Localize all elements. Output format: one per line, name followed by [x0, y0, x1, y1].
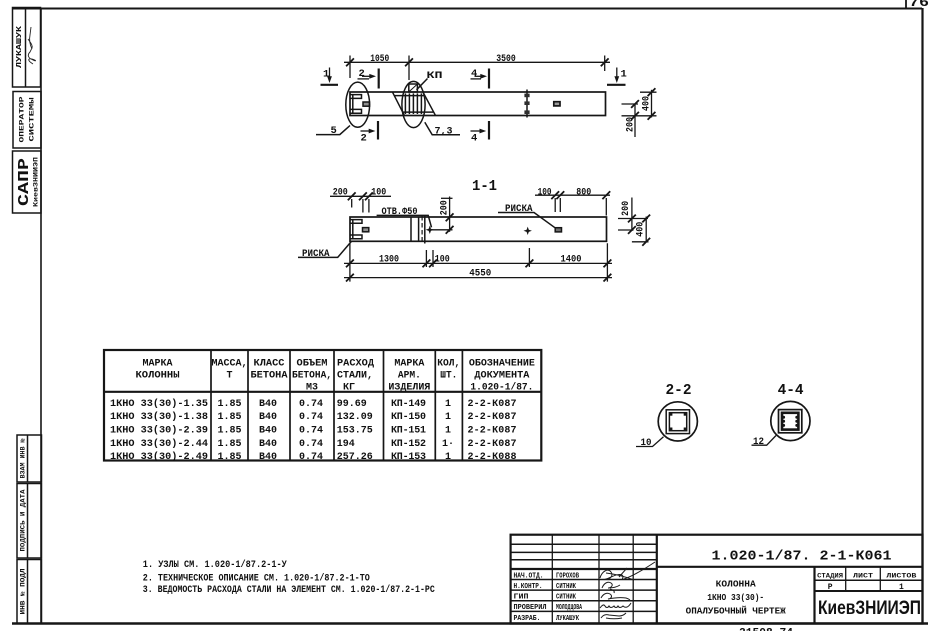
svg-text:ПРОВЕРИЛ: ПРОВЕРИЛ	[514, 604, 547, 612]
svg-text:1КНО 33(30)-1.38: 1КНО 33(30)-1.38	[110, 411, 208, 423]
svg-text:2-2-К087: 2-2-К087	[468, 399, 517, 410]
svg-text:1КНО 33(30)-: 1КНО 33(30)-	[707, 593, 764, 603]
table header divider	[104, 391, 541, 393]
svg-text:ОПЕРАТОР: ОПЕРАТОР	[18, 97, 26, 143]
svg-text:4: 4	[471, 133, 477, 145]
svg-text:1КНО 33(30)-2.44: 1КНО 33(30)-2.44	[110, 438, 208, 450]
svg-text:ОТВ.Ф50: ОТВ.Ф50	[382, 206, 418, 218]
leader 10	[636, 437, 664, 447]
svg-text:400: 400	[640, 96, 652, 111]
table column lines	[104, 350, 541, 461]
svg-text:0.74: 0.74	[299, 412, 323, 423]
right side ext lines	[640, 91, 657, 93]
svg-text:РАСХОД: РАСХОД	[337, 359, 374, 370]
svg-text:400: 400	[634, 222, 646, 237]
svg-text:М3: М3	[306, 382, 318, 393]
svg-text:РИСКА: РИСКА	[505, 203, 533, 215]
leader for detail 5	[316, 126, 350, 135]
svg-text:1.85: 1.85	[218, 412, 242, 423]
corbel body	[393, 92, 436, 115]
svg-text:1КНО 33(30)-2.39: 1КНО 33(30)-2.39	[110, 425, 208, 437]
signature table verticals	[551, 535, 553, 624]
svg-text:КП: КП	[427, 70, 443, 82]
section mark 1 left	[321, 68, 339, 85]
signature labels	[514, 573, 583, 624]
svg-text:2-2-К087: 2-2-К087	[468, 426, 517, 437]
svg-text:1: 1	[445, 399, 451, 410]
svg-text:1. УЗЛЫ СМ. 1.020-1/87.2-1-У: 1. УЗЛЫ СМ. 1.020-1/87.2-1-У	[143, 559, 287, 571]
svg-text:В40: В40	[259, 412, 277, 423]
section mark 4 bottom	[471, 121, 490, 140]
stadiya headers	[817, 573, 916, 581]
svg-text:БЕТОНА: БЕТОНА	[251, 371, 288, 382]
svg-text:1.020-1/87. 2-1-К061: 1.020-1/87. 2-1-К061	[712, 549, 892, 565]
svg-text:200: 200	[333, 187, 348, 199]
signature Горохов	[600, 562, 655, 580]
svg-text:МАРКА: МАРКА	[143, 359, 173, 370]
svg-text:КП-150: КП-150	[391, 412, 426, 423]
column section outline	[350, 217, 607, 241]
svg-text:5: 5	[331, 125, 337, 137]
table data rows	[110, 398, 517, 463]
table header texts	[136, 359, 535, 394]
svg-text:1·: 1·	[442, 439, 454, 450]
detail ellipse 7,3	[402, 81, 425, 127]
signature Лукашук	[601, 613, 626, 619]
svg-text:САПР: САПР	[16, 158, 33, 206]
svg-text:3. ВЕДОМОСТЬ РАСХОДА СТАЛИ НА: 3. ВЕДОМОСТЬ РАСХОДА СТАЛИ НА ЭЛЕМЕНТ СМ…	[143, 584, 435, 596]
detail ellipse 5	[346, 82, 370, 127]
svg-text:БЕТОНА,: БЕТОНА,	[292, 371, 332, 382]
hole diamond 2	[524, 227, 532, 235]
svg-text:1КНО 33(30)-2.49: 1КНО 33(30)-2.49	[110, 451, 208, 463]
section 2-2 outer square	[666, 410, 689, 434]
svg-text:СТАЛИ,: СТАЛИ,	[337, 371, 373, 382]
svg-text:200: 200	[438, 200, 450, 215]
svg-text:Т: Т	[226, 371, 232, 382]
lifting loop mark	[554, 102, 560, 106]
title block outer border	[511, 535, 923, 624]
section 4-4 inner thick tube	[782, 413, 798, 430]
svg-text:0.74: 0.74	[299, 452, 323, 463]
left end formwork profile	[351, 95, 362, 114]
svg-text:1: 1	[899, 583, 904, 592]
svg-text:2: 2	[359, 68, 365, 80]
svg-text:В40: В40	[259, 439, 277, 450]
stamp box САПР КиевЗНИИЭП	[13, 151, 42, 213]
top-right sheet number box	[905, 0, 907, 9]
svg-text:ОПАЛУБОЧНЫЙ ЧЕРТЕЖ: ОПАЛУБОЧНЫЙ ЧЕРТЕЖ	[686, 606, 787, 617]
svg-text:МОЛОДЦОВА: МОЛОДЦОВА	[556, 604, 583, 612]
label row lines	[511, 579, 657, 581]
overall dim line 4550	[344, 277, 612, 279]
svg-text:КЛАСС: КЛАСС	[254, 359, 285, 370]
svg-text:100: 100	[538, 186, 552, 198]
left end formwork profile (plan)	[351, 220, 363, 239]
svg-text:1.85: 1.85	[218, 426, 242, 437]
internal vertical line	[410, 217, 412, 241]
svg-text:В40: В40	[259, 399, 277, 410]
svg-text:ДОКУМЕНТА: ДОКУМЕНТА	[474, 371, 529, 382]
svg-text:10: 10	[641, 437, 652, 449]
svg-text:1.85: 1.85	[218, 439, 242, 450]
svg-text:ВЗАМ ИНВ №: ВЗАМ ИНВ №	[20, 438, 27, 478]
detail circle 2-2	[658, 402, 697, 441]
svg-text:СИТНИК: СИТНИК	[556, 594, 577, 602]
break line	[526, 90, 528, 118]
svg-text:СИТНИК: СИТНИК	[556, 583, 577, 591]
column elevation outline	[350, 92, 606, 116]
svg-text:21508-74: 21508-74	[739, 628, 793, 631]
fixture mark in left end	[363, 102, 370, 106]
svg-text:12: 12	[753, 436, 764, 448]
svg-text:1: 1	[445, 426, 451, 437]
svg-text:76: 76	[909, 0, 929, 10]
leader 12	[752, 436, 777, 446]
right dim 200	[618, 198, 634, 232]
svg-text:2-2: 2-2	[666, 382, 692, 399]
leader 7,3	[425, 122, 460, 135]
svg-text:1: 1	[445, 412, 451, 423]
stadiya cells	[845, 567, 847, 591]
svg-text:200: 200	[624, 117, 636, 132]
section 2-2 inner square	[669, 413, 686, 431]
svg-text:2-2-К087: 2-2-К087	[468, 439, 517, 450]
svg-text:ЛУКАШУК: ЛУКАШУК	[556, 615, 580, 623]
svg-text:АРМ.: АРМ.	[398, 371, 421, 382]
svg-text:МАССА,: МАССА,	[212, 359, 248, 370]
svg-text:ПОДПИСЬ И ДАТА: ПОДПИСЬ И ДАТА	[20, 489, 27, 551]
svg-text:КОЛОННЫ: КОЛОННЫ	[136, 371, 180, 382]
svg-text:ОБОЗНАЧЕНИЕ: ОБОЗНАЧЕНИЕ	[469, 359, 535, 370]
break squiggles	[524, 94, 529, 114]
svg-text:800: 800	[576, 186, 591, 198]
frame left border line	[40, 8, 42, 624]
section mark 2 bottom	[361, 121, 379, 140]
dim 400 line	[651, 90, 653, 118]
svg-text:ГОРОХОВ: ГОРОХОВ	[556, 573, 580, 581]
hole centerline dashed	[421, 216, 423, 243]
internal vertical pair	[419, 215, 425, 243]
svg-text:1-1: 1-1	[472, 178, 497, 195]
svg-text:1300: 1300	[379, 254, 399, 266]
leader РИСКА top	[498, 213, 556, 229]
svg-text:ЛИСТ: ЛИСТ	[853, 573, 873, 581]
svg-text:СТАДИЯ: СТАДИЯ	[817, 573, 843, 581]
svg-text:КОЛОННА: КОЛОННА	[716, 579, 757, 589]
top dimension line 1050/3500	[344, 61, 610, 63]
svg-text:1400: 1400	[561, 254, 582, 266]
svg-text:132.09: 132.09	[337, 412, 373, 423]
svg-text:1: 1	[621, 69, 627, 81]
svg-text:ИЗДЕЛИЯ: ИЗДЕЛИЯ	[388, 382, 430, 393]
frame top border	[12, 8, 922, 10]
svg-text:0.74: 0.74	[299, 426, 323, 437]
section 4-4 outer square	[779, 410, 802, 433]
svg-text:КГ: КГ	[343, 382, 355, 393]
ticks	[346, 58, 354, 66]
svg-text:1050: 1050	[370, 53, 389, 65]
svg-text:ЛУКАШУК: ЛУКАШУК	[16, 25, 24, 68]
svg-text:100: 100	[371, 187, 386, 199]
svg-text:ОБЪЕМ: ОБЪЕМ	[297, 359, 328, 370]
section mark 2 top	[358, 69, 379, 89]
svg-text:2: 2	[361, 133, 367, 145]
svg-text:ИНВ № ПОДЛ: ИНВ № ПОДЛ	[20, 568, 27, 614]
svg-text:ЛИСТОВ: ЛИСТОВ	[886, 573, 916, 581]
svg-text:КП-153: КП-153	[391, 452, 426, 463]
stamp box ИНВ № ПОДЛ	[17, 560, 42, 624]
signature ГИП	[601, 593, 630, 601]
svg-text:ГИП: ГИП	[514, 594, 529, 602]
svg-text:1.85: 1.85	[218, 399, 242, 410]
svg-text:2-2-К087: 2-2-К087	[468, 412, 517, 423]
frame bottom border	[12, 622, 928, 625]
svg-text:В40: В40	[259, 452, 277, 463]
svg-text:КиевЗНИИЭП: КиевЗНИИЭП	[33, 156, 40, 207]
svg-text:РАЗРАБ.: РАЗРАБ.	[514, 615, 541, 623]
frame right border	[921, 8, 923, 624]
svg-text:КиевЗНИИЭП: КиевЗНИИЭП	[818, 597, 921, 619]
scallops left	[782, 416, 798, 427]
corbel top plate КП	[409, 84, 418, 92]
stamp box ОПЕРАТОР СИСТЕМЫ	[13, 92, 41, 149]
right section divider	[813, 567, 815, 624]
band bottom line	[657, 566, 923, 568]
stamp box ЛУКАШУК/signature	[13, 8, 41, 88]
svg-text:В40: В40	[259, 426, 277, 437]
stamp box ВЗАМ ИНВ №	[17, 435, 42, 482]
column name	[686, 579, 787, 616]
inner corner marks 2-2	[670, 413, 687, 430]
stamp box ПОДПИСЬ И ДАТА	[17, 484, 42, 559]
table outer border	[104, 350, 541, 461]
svg-text:Н.КОНТР.: Н.КОНТР.	[514, 583, 543, 591]
svg-text:1: 1	[323, 69, 329, 81]
svg-text:4: 4	[471, 68, 477, 80]
svg-text:4550: 4550	[469, 268, 491, 280]
section mark 4 top	[471, 69, 490, 89]
svg-text:ШТ.: ШТ.	[440, 371, 457, 382]
svg-text:НАЧ.ОТД.: НАЧ.ОТД.	[514, 573, 544, 581]
riska mark left	[363, 228, 369, 232]
svg-text:РИСКА: РИСКА	[302, 248, 330, 260]
mini rows	[511, 543, 657, 545]
svg-text:СИСТЕМЫ: СИСТЕМЫ	[28, 98, 36, 142]
detail circle 4-4	[771, 401, 810, 440]
dim 200 at hole: reference lines	[432, 229, 453, 231]
leader РИСКА bottom left	[298, 242, 351, 258]
corbel hatch verticals	[405, 93, 421, 114]
svg-text:200: 200	[620, 201, 632, 216]
svg-text:7,3: 7,3	[435, 126, 453, 138]
signatures	[600, 562, 655, 619]
svg-text:0.74: 0.74	[299, 399, 323, 410]
bottom dim line 1300/100/1400	[344, 262, 612, 264]
svg-text:1: 1	[445, 452, 451, 463]
hole diamond	[426, 226, 434, 234]
svg-text:1.020-1/87.: 1.020-1/87.	[470, 381, 533, 393]
svg-text:99.69: 99.69	[337, 399, 367, 410]
ticks section 1-1	[348, 192, 356, 200]
svg-text:2-2-К088: 2-2-К088	[468, 452, 517, 463]
top-left dim line 200/100	[330, 195, 391, 197]
svg-text:4-4: 4-4	[778, 382, 804, 399]
signature Молодцова	[600, 603, 631, 608]
right dim 400	[618, 217, 649, 243]
svg-text:2. ТЕХНИЧЕСКОЕ ОПИСАНИЕ СМ. 1.: 2. ТЕХНИЧЕСКОЕ ОПИСАНИЕ СМ. 1.020-1/87.2…	[143, 572, 370, 584]
svg-text:0.74: 0.74	[299, 439, 323, 450]
svg-text:100: 100	[435, 254, 450, 266]
dim 200 line	[634, 104, 636, 137]
svg-text:КОЛ,: КОЛ,	[437, 359, 460, 370]
leader КП	[417, 79, 428, 90]
leader ОТВ.Ф50	[377, 215, 432, 227]
svg-text:3500: 3500	[496, 53, 516, 65]
svg-text:1КНО 33(30)-1.35: 1КНО 33(30)-1.35	[110, 398, 208, 410]
svg-text:МАРКА: МАРКА	[394, 359, 424, 370]
svg-text:КП-149: КП-149	[391, 399, 426, 410]
svg-text:КП-151: КП-151	[391, 426, 426, 437]
svg-text:1.85: 1.85	[218, 452, 242, 463]
svg-text:Р: Р	[828, 583, 833, 592]
svg-text:257.26: 257.26	[337, 452, 373, 463]
signature squiggle in top stamp	[28, 27, 36, 64]
top-right dim line 100/800	[535, 194, 610, 196]
svg-text:153.75: 153.75	[337, 426, 373, 437]
section mark 1 right	[607, 68, 626, 85]
svg-text:194: 194	[337, 439, 355, 450]
svg-text:КП-152: КП-152	[391, 439, 426, 450]
signature Ситник	[602, 582, 620, 593]
riska mark right	[555, 228, 561, 232]
